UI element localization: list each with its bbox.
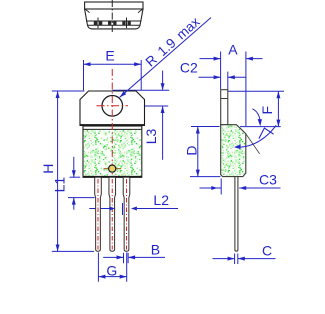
svg-text:C3: C3 — [259, 171, 277, 187]
mounting hole — [102, 96, 123, 117]
svg-text:L1: L1 — [52, 177, 68, 193]
svg-text:L3: L3 — [143, 129, 159, 145]
dimension L3 arrows — [162, 71, 164, 91]
red vertical centerline — [111, 69, 113, 176]
svg-text:G: G — [106, 262, 117, 278]
svg-text:A: A — [228, 42, 238, 58]
C3 left arrowhead — [211, 186, 217, 190]
dimension C2 extension line — [199, 72, 247, 90]
dimension D extension lines — [190, 127, 220, 177]
top view centerline — [111, 0, 113, 33]
svg-text:F: F — [259, 106, 275, 115]
angle arc upper — [252, 109, 260, 120]
side view pin — [235, 177, 238, 252]
dimension G line — [98, 276, 126, 278]
dimension L1 tick upper — [68, 157, 95, 210]
dimension L3 extension lines — [112, 71, 169, 160]
front body molded — [83, 126, 142, 177]
angle open arrowhead — [259, 128, 274, 139]
ejector pin mark circle — [109, 165, 116, 172]
top view body trapezoid — [85, 9, 143, 29]
svg-text:C2: C2 — [180, 60, 198, 76]
dimension L1 tick lower — [68, 197, 95, 199]
side view body — [221, 125, 246, 177]
side view tab — [221, 90, 228, 125]
svg-text:C: C — [262, 242, 272, 258]
red horizontal centerline of hole — [97, 105, 129, 107]
dimension C3 extension line — [200, 179, 281, 195]
chamfer extension line — [246, 134, 260, 154]
dimension C lines — [213, 258, 235, 260]
top view pin 2 — [108, 21, 117, 25]
dimension H extension lines — [52, 91, 94, 251]
front view tab with chamfered corners — [80, 91, 145, 125]
dimension L2 lines — [89, 208, 178, 210]
top view right corner chamfer — [138, 9, 143, 13]
ejector pin mark line — [104, 168, 122, 170]
dimension D line — [197, 127, 199, 177]
dimension C3 lines — [200, 187, 222, 189]
tab lip thick line — [80, 124, 146, 126]
top view pin 3 — [122, 18, 131, 29]
dimension E line — [84, 63, 142, 65]
svg-text:H: H — [40, 164, 56, 174]
dimension C ticks — [213, 254, 276, 265]
svg-text:L2: L2 — [153, 192, 169, 208]
svg-text:D: D — [184, 146, 200, 156]
front body bottom thick line — [83, 176, 142, 178]
dimension B ticks — [103, 253, 165, 263]
dimension B lines — [103, 256, 123, 258]
dimension F line — [277, 91, 279, 126]
top view pin 1 — [94, 18, 103, 29]
L2 left arrowhead — [109, 207, 115, 211]
dimension F extension lines — [228, 91, 284, 126]
svg-text:B: B — [151, 241, 160, 257]
angle arc upper arrowhead — [258, 119, 262, 126]
dimension A lines — [200, 58, 221, 60]
top view front face lower line — [87, 24, 140, 26]
angle arc lower — [240, 125, 276, 147]
pin 1 front — [95, 177, 102, 251]
top view front face upper line — [86, 20, 141, 22]
top view left corner chamfer — [85, 9, 90, 13]
top view tab strip — [85, 2, 143, 9]
L2 tick — [122, 203, 124, 215]
dimension H line — [57, 91, 59, 251]
front body inner top line — [83, 128, 142, 130]
pin 3 front — [123, 177, 130, 251]
pin 2 front — [109, 177, 116, 251]
dimension A extension lines — [200, 52, 263, 127]
side view hole depth line — [221, 98, 228, 100]
dimension C2 lines — [199, 76, 221, 78]
dimension L1 arrows — [73, 157, 75, 177]
dimension E extension lines — [84, 60, 142, 90]
svg-text:E: E — [105, 47, 114, 63]
leader line R 1.9 max — [120, 18, 211, 98]
dimension G extension lines — [98, 253, 126, 282]
L2 right arrowhead — [131, 207, 137, 211]
angle arc lower arrowhead — [234, 144, 241, 149]
